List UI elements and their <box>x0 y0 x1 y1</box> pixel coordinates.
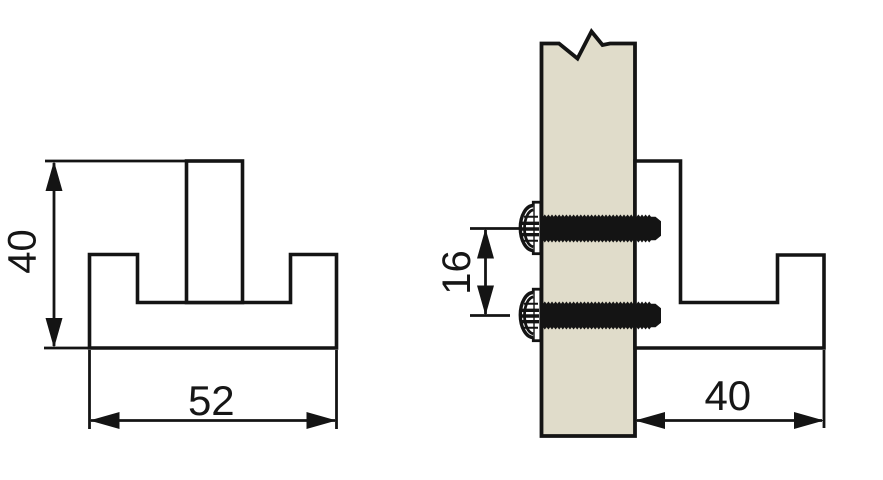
front view: double hook outline <box>90 255 337 349</box>
dimension 52 (bottom left): dimension line <box>91 419 335 422</box>
screw S1 (upper): head flange <box>533 202 541 254</box>
dimension 52: right arrowhead <box>307 412 337 429</box>
screw S1 (upper): dome head outer arc <box>520 206 533 251</box>
screw S1 (upper): threaded shaft <box>541 215 661 243</box>
dimension 40 (right): right extension line <box>823 350 826 428</box>
dimension 40 (left): top extension line <box>45 160 187 163</box>
dimension 52 (bottom left): left extension line <box>88 350 91 429</box>
svg-text:40: 40 <box>1 229 45 274</box>
screw S2 (lower): head flange <box>533 289 541 341</box>
dimension 40 (right): dimension line <box>637 419 822 422</box>
dimension 52: left arrowhead <box>90 412 120 429</box>
svg-text:16: 16 <box>435 250 479 295</box>
screw S2 (lower): dome head inner arc <box>524 297 533 334</box>
screw S1 (upper): dome head inner arc <box>524 210 533 247</box>
side view: hook profile <box>635 161 824 348</box>
dimension 40 (left): value label "40" <box>1 229 45 274</box>
dimension 40 (left): dimension line <box>53 163 56 346</box>
svg-text:52: 52 <box>188 377 235 424</box>
screw S2 (lower): dome head outer arc <box>520 293 533 338</box>
dimension 16: value label "16" <box>435 250 479 295</box>
dimension 40 (right): right arrowhead <box>794 412 824 429</box>
screw S2 (lower): threaded shaft <box>541 302 661 330</box>
dimension 16: lower arrowhead <box>477 286 494 316</box>
screw S2 (lower): drive recess stripes <box>521 309 539 324</box>
svg-text:40: 40 <box>704 372 751 419</box>
dimension 52 (bottom left): right extension line <box>335 350 338 429</box>
side view: wooden panel with break line <box>542 32 636 437</box>
dimension 16: dimension line <box>484 230 487 314</box>
front view: center mounting post <box>187 161 243 303</box>
screw S1 (upper): recess edge ticks <box>524 217 538 241</box>
dimension 16: upper extension line <box>470 227 521 230</box>
dimension 40 (left): upper arrowhead <box>46 161 63 191</box>
dimension 40 (right): left arrowhead <box>635 412 665 429</box>
dimension 16: lower extension line <box>470 314 510 317</box>
dimension 16: upper arrowhead <box>477 229 494 259</box>
dimension 40 (left): lower arrowhead <box>46 318 63 348</box>
screw S2 (lower): recess edge ticks <box>524 304 538 328</box>
dimension 40 (left): bottom extension line <box>44 347 90 350</box>
screw S1 (upper): drive recess stripes <box>521 222 539 237</box>
